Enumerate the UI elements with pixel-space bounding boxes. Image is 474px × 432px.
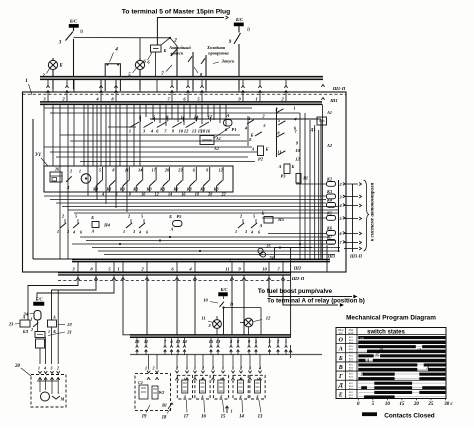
svg-text:К3: К3 [213,187,219,192]
svg-text:Б: Б [168,214,172,219]
box 15 coil [218,380,224,393]
wire drop t5 [37,281,114,299]
relay К7 [327,240,336,245]
wire v-mid 2 [159,104,161,123]
svg-text:22: 22 [66,322,72,327]
svg-text:запуск: запуск [170,51,184,56]
box 16 [195,375,210,399]
gantt row guide 2 [358,355,446,357]
wire into box top [156,79,158,92]
svg-text:2: 2 [30,327,33,332]
svg-text:2: 2 [201,366,204,371]
wire v-right 4 [318,130,320,259]
box 22 [48,320,57,327]
long wire d0 [80,236,330,238]
svg-text:13: 13 [258,415,263,420]
wire drop t3 [28,281,78,321]
gantt bar row6 sub0 [374,391,412,394]
svg-text:В1: В1 [161,403,167,408]
contact group row2 a [60,223,66,228]
terminal 2 top [284,86,287,88]
wire v-left 16 [139,104,141,166]
wire v-left 14 [126,104,128,212]
wire v-mid 1 [152,104,154,120]
svg-text:У1: У1 [35,153,41,158]
gantt bar row2 sub0 [380,354,445,357]
svg-text:17: 17 [184,415,189,420]
svg-text:1: 1 [123,229,125,234]
arrow autocontrol 6 [344,248,358,250]
svg-text:1): 1) [230,302,234,307]
relay К4 [327,203,336,208]
emerg start switch [176,46,178,64]
svg-text:4: 4 [239,395,242,399]
lamp 11 [213,320,222,329]
svg-text:Е: Е [248,137,252,142]
wire drop 147 [146,281,148,335]
svg-text:2: 2 [239,366,242,371]
bus Sh1-P band [40,76,323,80]
bus2 arrow pair 5 [183,346,186,348]
svg-text:К7: К7 [326,235,333,240]
svg-text:Л: Л [66,185,70,190]
svg-text:Ш1: Ш1 [329,98,337,103]
svg-text:1: 1 [145,366,147,371]
switch 9 top-mid [238,26,240,33]
svg-text:15: 15 [375,354,379,358]
inner frame top [150,118,321,120]
svg-text:1: 1 [129,129,131,134]
relay P6 coil [264,217,273,224]
wire v-left 4 [73,104,75,166]
wire horiz from switch 3 [74,37,171,39]
terminal 1 top [258,86,261,88]
wire feeder K5 [262,217,327,219]
svg-text:Е: Е [338,392,343,398]
svg-text:6: 6 [80,230,82,235]
svg-text:26: 26 [54,167,59,172]
lamp 2 (B) [48,60,57,69]
bus2 arrow pair 8 [230,346,233,348]
svg-text:Б: Б [58,64,62,69]
svg-text:5: 5 [141,214,143,219]
bus Sh1-P label [321,85,324,87]
switch 3 top-left [73,28,75,32]
svg-text:А: А [259,223,263,228]
wire below terminal 4 [194,275,196,281]
gantt bar row2 sub1 [358,359,365,362]
relay К3 [327,194,336,199]
wire lamp B down [52,69,54,89]
svg-text:Ш2: Ш2 [293,266,302,271]
svg-text:Ш3: Ш3 [327,254,336,259]
wires left cluster down [39,348,41,364]
inner bus [40,101,322,103]
contactor A oval [224,120,233,127]
wire drop 195 [194,281,196,335]
arrow autocontrol 0 [344,183,358,185]
svg-text:1: 1 [57,229,59,234]
gantt bar row4 sub1 [419,377,445,380]
svg-text:To fuel boost pump/valve: To fuel boost pump/valve [258,288,333,295]
gantt bar row4 sub0 [419,373,445,376]
wire v-left 13 [119,104,121,166]
switch 21a [33,323,38,328]
wire v-right 1 [304,113,306,259]
gantt bar row5 sub0 [374,382,412,385]
gantt bar row0 sub1 [358,341,445,344]
switch 10 [223,296,225,299]
switch cascade P2 [247,116,249,146]
U1 contact 3 [136,180,142,186]
long wire a [44,107,252,109]
bottom inner bus band [72,259,330,262]
wire v-mid 8 [195,104,197,121]
bus2 arrow pair 2 [164,346,167,348]
svg-text:4: 4 [72,230,75,235]
gantt bar row5 sub1 [422,386,445,389]
svg-text:В: В [338,365,343,371]
cascade chain vertical [276,108,278,157]
svg-text:Б: Б [338,356,343,362]
bus2 arrow pair 4 [177,346,180,348]
svg-text:Ш2-П: Ш2-П [291,276,305,281]
svg-text:Б: Б [261,211,265,216]
bus2 arrow pair 3 [170,346,173,348]
lamp 5 [135,60,144,69]
bus Sh2 [58,271,291,273]
svg-text:3: 3 [248,366,251,371]
long wire b [50,112,300,114]
relay К6 [327,231,336,236]
wire 8 down [192,64,194,90]
svg-text:13: 13 [216,339,221,344]
svg-text:4: 4 [138,230,141,235]
svg-text:15: 15 [209,339,214,344]
wire below terminal 2 [146,275,148,281]
wire below terminal 1 [122,275,124,281]
relay 6 box [151,45,162,52]
svg-text:2: 2 [175,366,178,371]
svg-text:4: 4 [250,230,253,235]
wire drop 232 [231,281,233,335]
svg-text:А: А [91,229,95,234]
wire v-right 0 [299,113,301,259]
wire to master plug [157,18,224,46]
U1 contact 0 [96,180,102,186]
svg-text:12: 12 [176,339,181,344]
svg-text:4: 4 [114,47,118,53]
svg-text:1: 1 [293,106,295,111]
component 4 frame [105,64,120,91]
svg-text:14: 14 [138,168,142,173]
bus2 arrow pair 9 [237,346,240,348]
table row line О [336,334,446,336]
resistor Sh [296,174,301,184]
wire v-left 8 [96,104,98,200]
svg-text:23: 23 [8,322,14,327]
gantt bar row5 sub1 [361,386,367,389]
wire K7 bottom riser [326,245,328,272]
table row line Д [336,379,446,381]
wire v-left 2 [59,104,61,259]
wire v-right 5 [322,104,324,259]
wire v-mid 0 [145,104,147,117]
wire v-left 6 [87,104,89,196]
long wire d4 [98,250,340,252]
svg-text:2У: 2У [360,373,366,377]
box 13 coil [254,380,260,393]
gantt bar row4 sub1 [358,377,394,380]
svg-text:А2: А2 [326,143,332,148]
svg-text:6: 6 [258,230,260,235]
arrow autocontrol 1 [344,196,358,198]
inner bus band [40,101,322,104]
legend bar [362,412,377,416]
wire below terminal 7 [282,275,284,281]
wire below terminal 3 [77,275,79,281]
svg-text:прокрутка: прокрутка [208,51,229,56]
svg-text:Р1: Р1 [232,127,237,132]
box 23 [20,320,30,327]
long wire d3 [92,247,340,249]
svg-text:1: 1 [48,329,50,334]
wire lamp 5 down [139,69,141,89]
svg-text:24: 24 [268,255,273,260]
svg-text:А: А [226,113,230,118]
svg-text:5: 5 [253,214,255,219]
box 17 [177,375,192,399]
svg-text:1: 1 [38,366,40,371]
svg-text:1У: 1У [360,337,365,341]
wire v-left 3 [67,104,69,259]
box 15 [213,375,228,399]
svg-text:11: 11 [225,267,229,272]
gantt bar row1 sub0 [422,345,445,348]
wires lamp 12 [248,327,250,335]
axis ticks [357,399,359,401]
gantt bar row3 sub1 [358,368,417,371]
svg-text:3: 3 [50,366,53,371]
gantt row guide 5 [358,382,446,384]
table col lines [345,328,347,399]
gantt bar row5 sub1 [374,386,412,389]
wire into box top [238,79,240,92]
long wire c7 [50,199,326,201]
wire below terminal 8 [95,275,97,281]
programmer U1 box [44,166,233,192]
svg-text:2: 2 [127,214,130,219]
svg-text:К6: К6 [326,226,333,231]
wire v-right 2 [309,120,311,259]
svg-text:2: 2 [211,366,214,371]
fuse 24 [34,311,41,321]
svg-text:1: 1 [30,317,32,322]
relay P1 [200,136,214,145]
long wire c11 [74,212,339,214]
bus2 arrow pair 12 [268,346,271,348]
gantt bar row6 sub1 [364,395,395,398]
svg-text:К0: К0 [146,187,152,192]
box20 wires [39,378,41,393]
table row line В [336,361,446,363]
svg-text:18: 18 [162,416,167,421]
svg-text:12: 12 [266,316,271,321]
cascade mid 1 [276,109,283,113]
wire v-left 0 [43,104,45,166]
svg-text:2: 2 [152,366,155,371]
box 20 terminal arrows [38,371,41,373]
svg-text:К4: К4 [326,198,332,203]
svg-text:25: 25 [427,402,434,407]
svg-text:К5: К5 [326,211,332,216]
brace autocontrol [364,180,370,251]
terminal 7 top [170,86,173,88]
svg-text:5: 5 [75,214,77,219]
svg-text:А: А [52,315,56,320]
wire below terminal 6 [176,275,178,281]
cascade mid 3 [277,133,284,137]
junction dots [73,258,75,260]
long wire c9 [62,206,339,208]
dashed connector line Sh1 [23,93,347,95]
inner frame bottom [33,258,321,260]
svg-text:Б: Б [265,147,269,152]
svg-text:Запуск: Запуск [221,59,236,64]
gantt bar row3 sub1 [428,368,445,371]
gantt row guide 0 [358,336,446,338]
wire v-left 9 [100,104,102,166]
U1 relay box 26 [50,172,62,182]
svg-text:Б/С: Б/С [220,287,228,292]
svg-text:Б: Б [291,164,295,169]
wire drop 244 [243,281,245,335]
long wire d2 [72,243,335,245]
U1 contact 2 [123,180,129,186]
wire bank link1 [108,126,136,128]
svg-text:К3: К3 [186,187,192,192]
wire start down [205,64,207,90]
svg-text:Р2: Р2 [258,157,264,162]
wire v-left 12 [115,104,117,208]
svg-text:11: 11 [277,150,281,155]
svg-text:1А: 1А [365,359,370,363]
lamp 12 [244,318,253,327]
relay P2 coil [258,146,264,156]
bus2 arrow pair 1 [145,346,148,348]
wire below terminal 10 [268,275,270,281]
wires Sh3 [338,180,340,252]
svg-text:4: 4 [255,395,258,399]
wire v-left 7 [92,104,94,166]
terminal 8 top [114,86,117,88]
wire v-mid 3 [165,104,167,126]
svg-text:Г: Г [338,374,343,380]
relay P4 coil [92,222,99,228]
resistor 20a [36,339,45,348]
cold crank switch [192,52,194,64]
inner frame left [32,119,34,259]
inner frame right [320,119,322,259]
svg-text:к системе автоконтроля: к системе автоконтроля [370,182,376,241]
svg-text:А: А [338,347,343,353]
svg-text:Б/С: Б/С [235,17,244,22]
U1 motor circle [81,174,91,184]
box 19 [135,374,171,411]
wire drop t1 [123,281,130,335]
bus2 arrow pair 7 [217,346,220,348]
U1 contact 5 [163,180,169,186]
wire into box top [176,79,178,92]
bus2 arrow pair 0 [136,346,139,348]
long wire c8 [56,202,326,204]
svg-text:Аварийный: Аварийный [168,45,191,50]
svg-text:23: 23 [177,168,182,173]
bus2 arrow pair 13 [277,346,280,348]
bus2 arrow pair 10 [248,346,251,348]
svg-text:Д: Д [426,366,430,370]
svg-text:20: 20 [14,364,20,369]
svg-text:15: 15 [221,415,226,420]
box 16 coil [199,380,205,393]
arrow symbol 1 bottom [226,406,228,413]
svg-text:БЛ: БЛ [22,329,29,334]
bus Sh1-P [40,76,323,78]
wire 7 down [176,64,178,90]
svg-text:1: 1 [235,229,237,234]
wire v-mid 10 [207,104,209,117]
gantt row guide 1 [358,346,446,348]
contact group row2 b [126,223,132,228]
svg-text:6: 6 [146,230,148,235]
gantt bar row2 sub1 [373,359,446,362]
svg-text:4: 4 [200,395,203,399]
wire into box top [192,79,194,92]
svg-text:4: 4 [219,395,222,399]
start switch [205,55,207,64]
table row line Б [336,352,446,354]
U1 contact 4 [150,180,156,186]
U1 contact 6 [176,180,182,186]
terminal 3 top [46,86,49,88]
bus2 arrow pair 6 [210,346,213,348]
arrow autocontrol 3 [344,218,358,220]
wire into box top [205,79,207,92]
svg-text:К3: К3 [326,189,332,194]
wire feeder K2 [296,183,327,185]
svg-text:To terminal 5 of Master 15pin: To terminal 5 of Master 15pin Plug [122,9,230,16]
svg-text:2: 2 [61,214,64,219]
svg-text:14: 14 [239,415,244,420]
relay P3 coil [284,164,290,174]
svg-text:2: 2 [56,366,59,371]
wire feeder K6 [268,233,327,235]
main unit box 1 [23,92,347,272]
svg-text:М: М [60,397,65,402]
box 14 [233,375,248,399]
svg-text:К0: К0 [199,187,205,192]
svg-text:11: 11 [201,316,205,321]
svg-text:16: 16 [201,415,206,420]
long wire c10 [68,209,339,211]
wire riser right bus [290,248,292,338]
terminal 4 top [99,86,102,88]
svg-text:Д: Д [338,383,344,389]
svg-text:Ш1-П: Ш1-П [332,86,346,91]
wire drop 177 [176,281,178,335]
svg-text:30 с: 30 с [443,402,453,407]
motor M circle [41,392,50,401]
